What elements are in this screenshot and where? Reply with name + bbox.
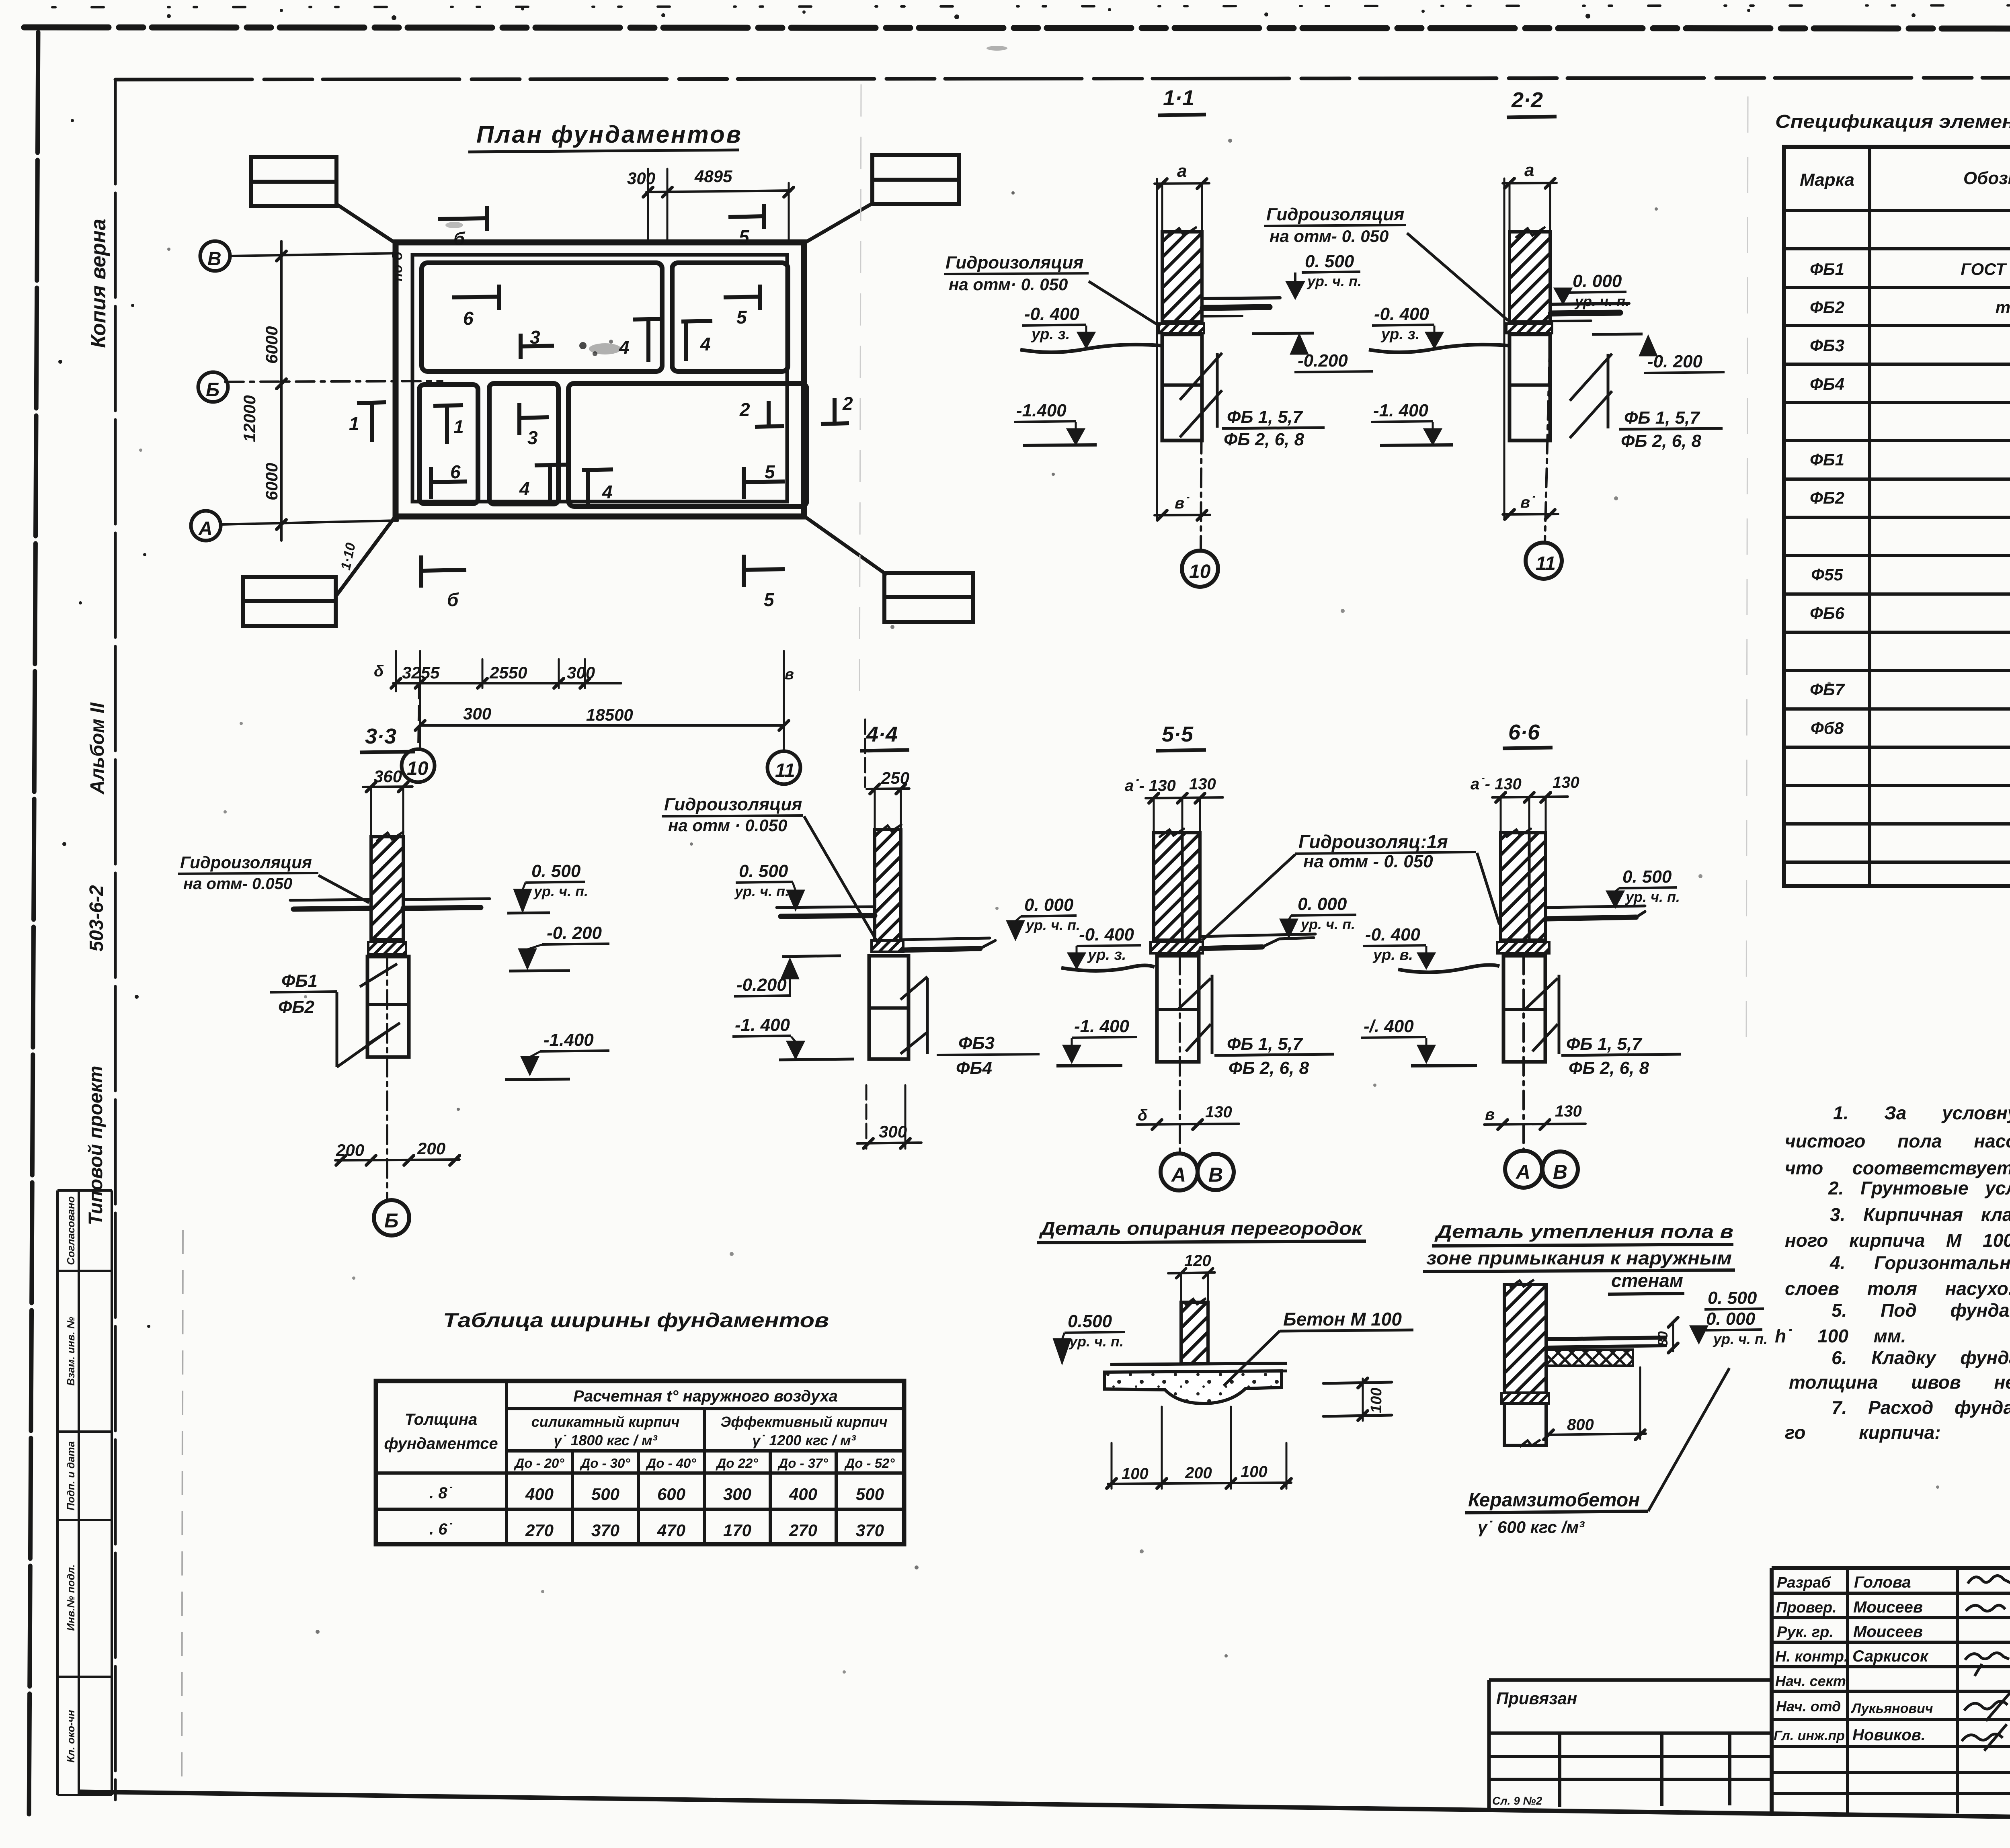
svg-text:100: 100 xyxy=(1368,1388,1385,1413)
svg-text:200: 200 xyxy=(336,1141,364,1160)
section 6-6 centreline xyxy=(1522,956,1525,1149)
room bottom-middle xyxy=(489,383,558,504)
section 2-2 grid circle 11 xyxy=(1526,543,1562,579)
left margin stamp cell column xyxy=(57,1190,112,1795)
plan section mark 4Т (room bottom-middle) xyxy=(535,465,566,504)
section 4-4 bottom dim 300 xyxy=(857,1143,921,1143)
svg-text:А: А xyxy=(1515,1161,1530,1183)
svg-text:2·2: 2·2 xyxy=(1511,88,1543,112)
section 4-4 brick wall hatched xyxy=(875,830,901,940)
svg-text:Таблица ширины фундаментов: Таблица ширины фундаментов xyxy=(443,1309,829,1332)
svg-text:4·4: 4·4 xyxy=(866,722,898,746)
svg-text:В: В xyxy=(207,248,222,270)
room top-right xyxy=(672,263,788,371)
plan section mark 6 (room top-left) xyxy=(452,285,499,310)
section 4-4 floor slab right (0.000) xyxy=(903,938,990,940)
svg-text:120: 120 xyxy=(1184,1252,1211,1270)
plan section mark Т4 (room bottom-right) xyxy=(582,469,613,506)
sheet inner left border xyxy=(114,80,117,1800)
axis 10 dashed drop line xyxy=(418,683,419,748)
svg-text:-1.400: -1.400 xyxy=(544,1030,594,1050)
svg-text:Ф55: Ф55 xyxy=(1811,565,1843,584)
section 2-2 bottom dim в xyxy=(1503,514,1558,514)
section 6-6 hydro band xyxy=(1497,942,1549,953)
fold crease middle xyxy=(859,84,861,703)
svg-text:200: 200 xyxy=(417,1139,445,1158)
svg-text:1. За условную отметку 0.: 1. За условную отметку 0. 000 принят уро… xyxy=(1833,1102,2010,1123)
svg-text:a: a xyxy=(1177,161,1187,181)
section 1-1 brick wall hatched xyxy=(1162,232,1202,322)
svg-text:Новиков.: Новиков. xyxy=(1852,1726,1926,1744)
svg-text:6. Кладку фундаментных блоко: 6. Кладку фундаментных блоков вести на р… xyxy=(1832,1347,2010,1368)
svg-text:360: 360 xyxy=(374,767,402,786)
section 1-1 bottom dim в xyxy=(1155,515,1210,515)
svg-text:б: б xyxy=(453,228,466,249)
detail 2 wall xyxy=(1504,1285,1546,1393)
svg-text:В: В xyxy=(1553,1161,1567,1183)
svg-text:6000: 6000 xyxy=(262,463,281,500)
svg-text:ФБ 2, 6, 8: ФБ 2, 6, 8 xyxy=(1229,1058,1309,1078)
svg-text:0. 500: 0. 500 xyxy=(1305,252,1354,271)
section 6-6 floor slab right (0.500) xyxy=(1547,906,1645,908)
svg-text:Деталь утепления пола в: Деталь утепления пола в xyxy=(1434,1221,1733,1242)
svg-text:Лукьянович: Лукьянович xyxy=(1850,1701,1933,1716)
svg-text:Взам. инв. №: Взам. инв. № xyxy=(65,1317,77,1386)
detail 2 small dim 80 xyxy=(1668,1317,1678,1353)
section 3-3 top dim 360 xyxy=(363,787,412,787)
svg-text:18500: 18500 xyxy=(586,705,633,724)
corner block top-right xyxy=(872,155,959,204)
sheet outer top speckle line xyxy=(52,5,2010,7)
svg-text:А: А xyxy=(1171,1164,1186,1186)
plan section mark 3 (room bottom-middle) xyxy=(519,403,549,435)
svg-text:Керамзитобетон: Керамзитобетон xyxy=(1468,1489,1640,1511)
svg-text:Толщина: Толщина xyxy=(405,1411,477,1428)
top dimension line 300/4895 xyxy=(646,191,791,192)
svg-text:6·6: 6·6 xyxy=(1508,720,1540,744)
plan section mark 5 (bottom outside) xyxy=(744,555,785,587)
svg-text:0. 500: 0. 500 xyxy=(1708,1288,1757,1308)
svg-text:Марка: Марка xyxy=(1800,170,1854,190)
svg-text:ур. ч. п.: ур. ч. п. xyxy=(1069,1333,1124,1350)
svg-text:силикатный кирпич: силикатный кирпич xyxy=(531,1414,680,1430)
svg-text:0. 000: 0. 000 xyxy=(1706,1309,1756,1329)
plan section mark 4 (room top-left) xyxy=(633,319,664,362)
svg-text:Провер.: Провер. xyxy=(1776,1599,1837,1616)
svg-text:чистого пола насосна - компр: чистого пола насосна - компрессорного от… xyxy=(1785,1131,2010,1151)
svg-text:170: 170 xyxy=(723,1521,751,1540)
svg-text:ур. ч. п.: ур. ч. п. xyxy=(734,883,789,899)
svg-text:Б: Б xyxy=(206,379,219,401)
grid circle 11 xyxy=(767,751,800,784)
sheet outer left border xyxy=(29,32,38,1821)
svg-text:на отм - 0. 050: на отм - 0. 050 xyxy=(1303,852,1433,871)
axis Б dashed line xyxy=(225,381,442,382)
building inner wall face xyxy=(412,255,787,502)
section 2-2 floor slab xyxy=(1551,303,1629,304)
svg-text:Копия верна: Копия верна xyxy=(87,219,110,348)
plan section mark б (top) xyxy=(438,206,487,231)
svg-text:Спецификация элементов к ма: Спецификация элементов к маркировочной с… xyxy=(1775,111,2010,132)
svg-text:Инв.№ подл.: Инв.№ подл. xyxy=(65,1564,77,1631)
Привязан box xyxy=(1489,1678,1772,1682)
svg-text:3. Кирпичная кладка с отме: 3. Кирпичная кладка с отметки-0.200 до 0… xyxy=(1830,1204,2010,1225)
svg-text:0. 500: 0. 500 xyxy=(739,861,788,881)
detail 1 floor slab xyxy=(1110,1363,1287,1364)
svg-text:Рук. гр.: Рук. гр. xyxy=(1777,1624,1834,1641)
svg-text:5: 5 xyxy=(765,461,775,482)
svg-text:До - 37°: До - 37° xyxy=(777,1456,828,1471)
detail 1 partition column xyxy=(1181,1302,1208,1364)
svg-text:370: 370 xyxy=(856,1521,884,1540)
section 4-4 level -0.200 xyxy=(782,956,841,957)
svg-text:300: 300 xyxy=(879,1122,907,1141)
svg-text:4: 4 xyxy=(602,481,613,502)
svg-text:0. 000: 0. 000 xyxy=(1024,895,1074,915)
section 6-6 ground line xyxy=(1398,965,1499,972)
svg-text:ФБ 2, 6, 8: ФБ 2, 6, 8 xyxy=(1621,431,1702,451)
section 4-4 floor slab left (0.500) xyxy=(777,907,875,908)
svg-text:2: 2 xyxy=(739,399,750,420)
svg-text:ФБ3: ФБ3 xyxy=(1810,336,1844,355)
svg-text:4: 4 xyxy=(519,478,530,499)
svg-text:Гидроизоляция: Гидроизоляция xyxy=(1266,205,1404,224)
svg-text:Сл. 9 №2: Сл. 9 №2 xyxy=(1492,1795,1542,1807)
detail 1 bottom dims 100 200 100 xyxy=(1107,1407,1291,1489)
section 1-1 floor slab xyxy=(1203,298,1280,299)
svg-text:4895: 4895 xyxy=(694,167,732,186)
section 1-1 centreline xyxy=(1201,334,1202,550)
svg-text:-0.200: -0.200 xyxy=(1298,351,1348,371)
section 6-6 grid circle В xyxy=(1542,1151,1578,1187)
svg-text:А: А xyxy=(198,518,213,539)
svg-text:ур. ч. п.: ур. ч. п. xyxy=(1025,917,1080,933)
svg-text:500: 500 xyxy=(856,1485,884,1504)
svg-text:ФБ3: ФБ3 xyxy=(958,1033,995,1053)
svg-text:на отм- 0. 050: на отм- 0. 050 xyxy=(1270,227,1389,246)
section 3-3 brick wall hatched xyxy=(371,837,403,940)
building outer wall xyxy=(396,242,804,516)
svg-text:-0. 400: -0. 400 xyxy=(1024,304,1080,324)
svg-text:фундаментсе: фундаментсе xyxy=(384,1435,498,1453)
svg-text:ФБ2: ФБ2 xyxy=(1810,488,1844,507)
axis 11 dashed drop line xyxy=(783,683,785,751)
svg-text:Подп. и дата: Подп. и дата xyxy=(65,1441,77,1510)
svg-text:До 22°: До 22° xyxy=(715,1456,758,1471)
svg-text:ФБ4: ФБ4 xyxy=(956,1058,992,1078)
corner diagonal top-left xyxy=(336,204,396,243)
spec table grid xyxy=(1784,147,2010,886)
width table grid xyxy=(376,1381,904,1544)
svg-text:на отм · 0.050: на отм · 0.050 xyxy=(668,816,787,835)
section 1-1 ground line xyxy=(1020,344,1162,352)
svg-text:300: 300 xyxy=(463,704,491,723)
section 2-2 level -0.200 xyxy=(1592,334,1643,334)
section 3-3 bottom dim 200 200 xyxy=(335,1160,459,1160)
sheet outer top dashed border xyxy=(24,27,2010,29)
corner block bottom-right xyxy=(884,573,973,622)
section 5-5 grid circle А xyxy=(1161,1153,1198,1190)
section 2-2 hydro band xyxy=(1506,324,1552,333)
svg-text:Фб8: Фб8 xyxy=(1811,719,1844,738)
svg-text:10: 10 xyxy=(1189,561,1211,582)
svg-text:300: 300 xyxy=(723,1485,751,1504)
svg-text:Гидроизоляция: Гидроизоляция xyxy=(180,853,312,872)
svg-text:5: 5 xyxy=(739,226,750,247)
detail 2 wall block below xyxy=(1504,1403,1546,1445)
svg-text:-0. 200: -0. 200 xyxy=(1647,352,1703,371)
svg-text:2550: 2550 xyxy=(489,663,527,682)
section 5-5 grid circle В xyxy=(1198,1154,1234,1190)
svg-text:Расчетная t° наружного во: Расчетная t° наружного воздуха xyxy=(573,1387,838,1405)
svg-text:0.500: 0.500 xyxy=(1068,1311,1112,1331)
svg-text:6: 6 xyxy=(450,461,461,482)
svg-text:3: 3 xyxy=(530,327,540,348)
section 2-2 top dim a xyxy=(1503,183,1557,183)
svg-text:-0.200: -0.200 xyxy=(736,975,787,995)
svg-text:12000: 12000 xyxy=(240,395,259,442)
grid circle 10 xyxy=(402,749,435,782)
section 6-6 foundation blocks xyxy=(1503,956,1545,1062)
svg-text:4. Горизонтальную гидроизоля: 4. Горизонтальную гидроизоляцию стен вып… xyxy=(1830,1252,2010,1273)
left dimension line xyxy=(280,241,283,541)
svg-text:a: a xyxy=(1524,160,1534,180)
section 1-1 top dim a xyxy=(1155,183,1209,184)
svg-text:470: 470 xyxy=(657,1521,685,1540)
section 3-3 foundation blocks xyxy=(367,957,409,1057)
svg-text:ФБ2: ФБ2 xyxy=(278,997,315,1017)
svg-text:Привязан: Привязан xyxy=(1496,1689,1577,1708)
svg-text:. 6˙: . 6˙ xyxy=(429,1520,453,1538)
room bottom-left xyxy=(419,385,478,504)
svg-text:-0. 200: -0. 200 xyxy=(547,923,602,943)
plan section mark Т1 (room bottom-left) xyxy=(433,405,463,444)
bottom dimension line 1 (3255/2550/300) xyxy=(393,682,621,684)
svg-text:h˙ 100 мм.: h˙ 100 мм. xyxy=(1775,1326,1906,1346)
section 5-5 hydro band xyxy=(1151,942,1203,953)
svg-text:в: в xyxy=(785,666,794,683)
svg-text:6: 6 xyxy=(463,308,474,329)
svg-text:Альбом II: Альбом II xyxy=(87,702,108,795)
svg-text:1: 1 xyxy=(453,416,464,437)
svg-text:130: 130 xyxy=(1555,1102,1582,1120)
svg-text:то же: то же xyxy=(1996,298,2010,317)
svg-text:ФБ7: ФБ7 xyxy=(1810,680,1845,699)
svg-text:80: 80 xyxy=(1655,1331,1671,1346)
detail 2 insulation layer xyxy=(1547,1350,1633,1366)
section 6-6 bottom dim xyxy=(1484,1124,1585,1125)
section 5-5 bottom dim xyxy=(1137,1124,1239,1125)
svg-text:7. Расход фундаментных блок: 7. Расход фундаментных блоков дан для ст… xyxy=(1832,1397,2010,1418)
svg-text:Н. контр.: Н. контр. xyxy=(1775,1648,1848,1665)
svg-text:Гидроизоляц:1я: Гидроизоляц:1я xyxy=(1298,831,1448,852)
section 2-2 brick wall hatched xyxy=(1510,232,1550,322)
svg-text:ур. з.: ур. з. xyxy=(1087,947,1126,963)
sheet bottom border xyxy=(80,1792,2010,1825)
svg-text:500: 500 xyxy=(591,1485,619,1504)
svg-text:1·1: 1·1 xyxy=(1163,86,1194,110)
svg-text:. 8˙: . 8˙ xyxy=(429,1484,453,1502)
svg-text:6000: 6000 xyxy=(262,326,281,364)
axis В line xyxy=(230,253,398,256)
svg-text:ФБ 1, 5,7: ФБ 1, 5,7 xyxy=(1227,1034,1303,1054)
svg-text:γ˙ 1800 кгс / м³: γ˙ 1800 кгс / м³ xyxy=(554,1432,657,1448)
svg-text:б: б xyxy=(447,589,459,610)
section 3-3 floor slab left xyxy=(290,899,371,900)
section 1-1 grid circle 10 xyxy=(1182,551,1218,587)
svg-text:100: 100 xyxy=(1122,1465,1149,1483)
section 1-1 level -0.200 xyxy=(1252,333,1314,334)
section 5-5 centreline xyxy=(1179,956,1181,1152)
svg-text:ФБ6: ФБ6 xyxy=(1810,604,1845,623)
svg-text:270: 270 xyxy=(789,1521,817,1540)
svg-text:130: 130 xyxy=(1205,1103,1232,1121)
svg-text:-1. 400: -1. 400 xyxy=(1373,401,1429,420)
svg-text:Согласовано: Согласовано xyxy=(65,1196,77,1265)
svg-text:0. 500: 0. 500 xyxy=(531,861,581,881)
svg-text:ного кирпича М 100 на раст: ного кирпича М 100 на растворе 50. xyxy=(1785,1230,2010,1251)
svg-text:ФБ 2, 6, 8: ФБ 2, 6, 8 xyxy=(1569,1058,1649,1078)
svg-text:План фундаментов: План фундаментов xyxy=(476,121,742,148)
section 2-2 foundation blocks xyxy=(1510,334,1550,440)
plan section mark 4 (room top-right) xyxy=(681,321,712,361)
room bottom-right xyxy=(568,383,807,506)
svg-text:До - 20°: До - 20° xyxy=(513,1456,564,1471)
section 3-3 centreline xyxy=(386,957,388,1199)
svg-text:Кл. око-чн: Кл. око-чн xyxy=(65,1710,77,1762)
svg-text:3: 3 xyxy=(527,427,538,448)
svg-text:3255: 3255 xyxy=(402,663,440,682)
svg-text:a˙- 130: a˙- 130 xyxy=(1125,777,1176,795)
svg-text:130: 130 xyxy=(1189,775,1216,793)
svg-text:300: 300 xyxy=(567,663,595,682)
svg-text:толщина швов не более 20мм: толщина швов не более 20мм xyxy=(1789,1372,2010,1393)
svg-text:в˙: в˙ xyxy=(1520,494,1535,511)
svg-text:5·5: 5·5 xyxy=(1162,722,1194,746)
svg-text:Гл. инж.пр: Гл. инж.пр xyxy=(1774,1728,1845,1744)
fold crease right xyxy=(1746,96,1748,1045)
svg-text:ФБ1: ФБ1 xyxy=(1810,450,1844,469)
section 4-4 foundation blocks xyxy=(869,956,909,1059)
svg-text:ФБ1: ФБ1 xyxy=(1810,260,1844,279)
svg-text:слоев толя насухо.: слоев толя насухо. xyxy=(1785,1278,2010,1299)
svg-text:ур. ч. п.: ур. ч. п. xyxy=(1300,916,1355,932)
svg-text:γ˙ 1200 кгс / м³: γ˙ 1200 кгс / м³ xyxy=(752,1432,856,1448)
plan section mark 2 (room bottom-right) xyxy=(755,401,784,427)
bottom dimension line 2 (300/18500) xyxy=(420,724,784,727)
grid circle В xyxy=(200,241,230,271)
svg-text:600: 600 xyxy=(657,1485,685,1504)
section 5-5 floor slab right (0.000) xyxy=(1201,934,1315,936)
svg-text:ур. ч. п.: ур. ч. п. xyxy=(1713,1331,1768,1347)
svg-text:Моисеев: Моисеев xyxy=(1853,1598,1923,1616)
svg-text:До - 30°: До - 30° xyxy=(579,1456,630,1471)
svg-text:ур. з.: ур. з. xyxy=(1031,326,1070,343)
svg-text:ур. з.: ур. з. xyxy=(1380,326,1419,343)
svg-text:ФБ 2, 6, 8: ФБ 2, 6, 8 xyxy=(1224,430,1304,449)
section 5-5 foundation blocks xyxy=(1157,956,1199,1062)
svg-text:ур. ч. п.: ур. ч. п. xyxy=(1574,293,1629,309)
svg-text:11: 11 xyxy=(775,760,795,781)
fold crease left xyxy=(182,1230,183,1791)
section 1-1 foundation blocks xyxy=(1162,334,1202,440)
svg-text:10: 10 xyxy=(407,758,429,779)
svg-text:в˙: в˙ xyxy=(1175,494,1190,512)
section 6-6 grid circle А xyxy=(1505,1151,1542,1188)
plan section mark 5 (room top-right) xyxy=(724,285,760,310)
corner block top-left xyxy=(251,157,336,206)
svg-text:130: 130 xyxy=(1553,774,1579,791)
svg-text:5: 5 xyxy=(764,589,775,610)
svg-text:ур. ч. п.: ур. ч. п. xyxy=(1306,273,1362,289)
svg-text:Б: Б xyxy=(384,1209,398,1232)
svg-text:Моисеев: Моисеев xyxy=(1853,1623,1923,1641)
svg-text:Обозначение: Обозначение xyxy=(1963,168,2010,188)
svg-text:ФБ1: ФБ1 xyxy=(281,971,318,991)
svg-text:5. Под фундаментами устроив: 5. Под фундаментами устроивается песчана… xyxy=(1832,1300,2010,1321)
svg-text:До - 52°: До - 52° xyxy=(844,1456,895,1471)
svg-text:на отм· 0. 050: на отм· 0. 050 xyxy=(949,275,1068,294)
svg-text:5: 5 xyxy=(736,307,747,328)
signature table rows xyxy=(1772,1592,2010,1595)
svg-text:что соответствует обсолютной: что соответствует обсолютной отметке xyxy=(1785,1158,2010,1178)
title block outline xyxy=(1772,1566,2010,1570)
svg-text:на отм- 0.050: на отм- 0.050 xyxy=(183,875,292,893)
corner block bottom-left xyxy=(243,577,336,626)
svg-text:Бетон М 100: Бетон М 100 xyxy=(1283,1309,1402,1330)
section 5-5 ground line xyxy=(1061,965,1155,971)
svg-text:До - 40°: До - 40° xyxy=(645,1456,696,1471)
svg-text:Эффективный кирпич: Эффективный кирпич xyxy=(720,1414,887,1430)
svg-text:ФБ4: ФБ4 xyxy=(1810,375,1844,393)
svg-text:Гидроизоляция: Гидроизоляция xyxy=(946,253,1083,272)
svg-text:ГОСТ 13579-78: ГОСТ 13579-78 xyxy=(1961,260,2010,279)
svg-text:300: 300 xyxy=(627,169,655,188)
section 6-6 brick wall hatched xyxy=(1501,833,1546,940)
plan section mark 5 (top) xyxy=(728,204,764,229)
svg-text:1: 1 xyxy=(349,413,359,434)
detail 2 hydro band xyxy=(1501,1393,1549,1403)
svg-text:250: 250 xyxy=(881,768,909,787)
svg-text:по·δ: по·δ xyxy=(390,252,405,281)
svg-text:-0. 400: -0. 400 xyxy=(1079,925,1134,944)
svg-text:Голова: Голова xyxy=(1854,1573,1911,1591)
detail 1 concrete pad xyxy=(1105,1371,1282,1403)
detail 1 right depth dim 100 xyxy=(1323,1378,1392,1421)
svg-text:a˙- 130: a˙- 130 xyxy=(1471,775,1522,793)
svg-text:0. 000: 0. 000 xyxy=(1573,271,1622,291)
corner diagonal bottom-left xyxy=(337,516,396,595)
svg-text:В: В xyxy=(1208,1164,1223,1186)
svg-text:400: 400 xyxy=(525,1485,554,1504)
plan section mark б (bottom outside) xyxy=(421,555,466,588)
section 5-5 top dim a-130 130 xyxy=(1146,797,1223,798)
svg-text:Разраб: Разраб xyxy=(1777,1574,1831,1591)
svg-text:400: 400 xyxy=(789,1485,817,1504)
svg-text:ФБ 1, 5,7: ФБ 1, 5,7 xyxy=(1566,1034,1643,1054)
section 2-2 centreline xyxy=(1545,334,1550,542)
svg-text:ур. ч. п.: ур. ч. п. xyxy=(533,883,588,899)
plan section mark 5 (room bottom-right) xyxy=(744,467,785,499)
svg-text:100: 100 xyxy=(1241,1463,1268,1481)
svg-text:4: 4 xyxy=(700,334,711,354)
corner diagonal top-right xyxy=(804,203,873,243)
section 2-2 ground line xyxy=(1369,344,1509,352)
svg-text:370: 370 xyxy=(591,1521,619,1540)
svg-text:в: в xyxy=(1485,1106,1495,1123)
plan section mark 2 (right outside) xyxy=(821,398,849,424)
svg-text:ФБ 1, 5,7: ФБ 1, 5,7 xyxy=(1624,408,1700,428)
